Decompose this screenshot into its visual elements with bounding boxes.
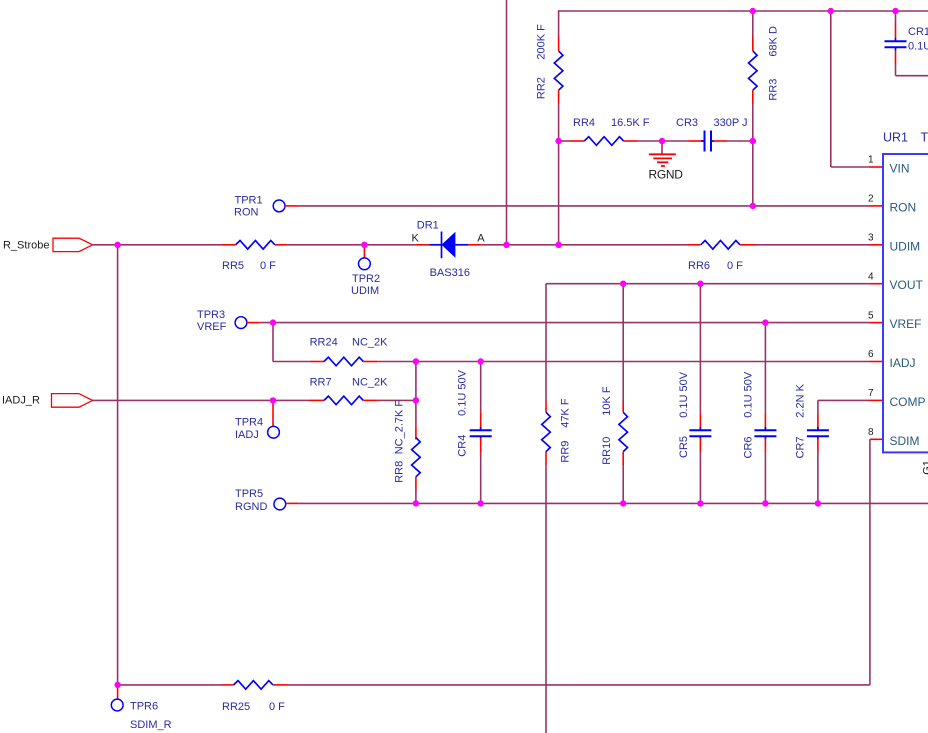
junction UDIM net at x506: [503, 242, 509, 248]
svg-text:CR7: CR7: [795, 436, 807, 458]
test point TPR1 RON: [273, 200, 285, 212]
wire TPR5 stub: [286, 502, 299, 504]
svg-text:0.1U 50V: 0.1U 50V: [743, 371, 755, 418]
svg-text:BAS316: BAS316: [430, 267, 470, 279]
capacitor CR7 pin1 stub: [817, 413, 819, 429]
capacitor CR6 pin2 stub: [764, 438, 766, 452]
wire RR7 to RR8 top: [377, 399, 416, 401]
resistor RR10 pin2 stub: [622, 452, 624, 467]
wire TPR4 junction to RR7: [273, 399, 310, 401]
svg-text:0.1U 50V: 0.1U 50V: [457, 369, 469, 416]
svg-text:RR6: RR6: [688, 260, 710, 272]
wire SDIM_R right segment: [287, 684, 870, 686]
svg-text:RR8: RR8: [394, 461, 406, 483]
resistor RR3 68K D: [749, 51, 758, 90]
wire CR5 column top: [699, 284, 701, 414]
wire junction to RR5: [118, 244, 222, 246]
resistor RR24 pin2 stub: [363, 361, 377, 363]
junction IADJ_R net at TPR4: [270, 397, 276, 403]
diode DR1 pin stub A: [468, 244, 482, 246]
svg-text:2.2N K: 2.2N K: [795, 383, 807, 417]
wire CR4 bottom to bus: [480, 453, 482, 503]
svg-text:IADJ_R: IADJ_R: [2, 394, 40, 406]
wire CR1 bottom corner to right edge: [895, 64, 897, 76]
svg-text:TPR1: TPR1: [235, 195, 263, 207]
capacitor CR7 pin2 stub: [817, 438, 819, 452]
junction IADJ net at RR8: [413, 358, 419, 364]
svg-text:68K D: 68K D: [768, 26, 780, 57]
capacitor CR4 0.1U 50V: [480, 427, 482, 430]
wire RON net: [299, 205, 870, 207]
capacitor CR7 2.2N K: [817, 427, 819, 430]
wire RR4 line left segment: [559, 140, 570, 142]
wire VOUT corner down to RR9: [545, 284, 547, 401]
pin 6 stub: [870, 361, 884, 363]
junction node R_Strobe: [114, 242, 120, 248]
junction node RGND tap: [659, 138, 665, 144]
capacitor CR5 pin2 stub: [699, 438, 701, 452]
wire IADJ left segment: [273, 361, 310, 363]
resistor RR5 0 F: [236, 241, 275, 250]
svg-text:6: 6: [868, 349, 874, 360]
svg-text:200K F: 200K F: [536, 24, 548, 60]
capacitor CR5 0.1U 50V: [699, 427, 701, 430]
resistor RR7 NC_2K: [324, 396, 363, 405]
wire CR4 column top: [480, 362, 482, 413]
wire diode to x506 junction: [482, 244, 507, 246]
svg-text:RR7: RR7: [310, 376, 332, 388]
svg-text:CR3: CR3: [676, 117, 698, 129]
svg-text:DR1: DR1: [417, 219, 439, 231]
pin 8 stub: [870, 438, 883, 440]
junction RGND bus at CR6: [762, 500, 768, 506]
wire RR9 bottom to bottom edge: [545, 466, 547, 733]
svg-text:47K F: 47K F: [559, 398, 571, 428]
resistor RR9 pin1 stub: [545, 401, 547, 413]
svg-text:3: 3: [868, 233, 874, 244]
resistor RR4 16.5K F: [584, 137, 623, 146]
svg-text:UDIM: UDIM: [351, 285, 379, 297]
diode DR1 pin stub K: [415, 244, 429, 246]
wire RR3 bottom to CR3 line: [752, 104, 754, 142]
svg-text:IADJ: IADJ: [235, 429, 259, 441]
junction UDIM net at TPR2: [361, 242, 367, 248]
svg-text:RR2: RR2: [536, 77, 548, 99]
svg-text:RON: RON: [234, 207, 259, 219]
resistor RR6 0 F: [701, 241, 740, 250]
diode DR1 BAS316: [430, 244, 442, 246]
svg-text:SDIM: SDIM: [890, 434, 920, 448]
wire R_Strobe to junction: [92, 244, 117, 246]
svg-text:0 F: 0 F: [269, 701, 285, 713]
svg-text:TPR4: TPR4: [235, 416, 263, 428]
svg-text:RR24: RR24: [310, 336, 338, 348]
resistor RR10 pin1 stub: [622, 401, 624, 413]
test point TPR5 RGND: [274, 498, 286, 510]
wire RR10 bottom to bus: [622, 466, 624, 503]
resistor RR2 pin1 stub: [558, 37, 560, 51]
capacitor CR1 pin1 stub: [895, 23, 897, 38]
wire IADJ_R to TPR4 junction: [92, 399, 273, 401]
svg-text:RGND: RGND: [235, 501, 267, 513]
test point TPR4 IADJ: [272, 400, 274, 426]
resistor RR8 pin2 stub: [415, 477, 417, 490]
wire VREF net: [260, 322, 870, 324]
wire RR8 column top: [415, 362, 417, 426]
junction RGND bus at RR10: [620, 500, 626, 506]
resistor RR24 pin1 stub: [310, 361, 324, 363]
wire RR2 bottom to RR4 line: [558, 104, 560, 142]
svg-text:TPR6: TPR6: [130, 700, 158, 712]
junction RON net at RR3: [750, 203, 756, 209]
svg-text:RR9: RR9: [559, 441, 571, 463]
test point TPR3 VREF: [235, 317, 247, 329]
wire RR6 to pin3: [756, 244, 870, 246]
svg-text:8: 8: [868, 427, 874, 438]
svg-text:0 F: 0 F: [727, 260, 743, 272]
svg-text:VREF: VREF: [890, 317, 922, 331]
svg-text:CR1: CR1: [908, 26, 928, 38]
wire x558 RR4 junction down to UDIM line: [558, 141, 560, 245]
pin 4 stub: [870, 283, 884, 285]
junction RGND bus at CR7: [815, 500, 821, 506]
svg-text:0 F: 0 F: [260, 260, 276, 272]
wire CR7 column top: [817, 400, 819, 413]
wire IADJ net: [377, 361, 869, 363]
svg-text:4: 4: [868, 271, 874, 282]
wire vertical x506 top edge to UDIM line: [506, 0, 508, 245]
wire CR5 bottom to bus: [699, 452, 701, 503]
resistor RR25 pin1 stub: [222, 684, 234, 686]
connector R_Strobe: [53, 238, 93, 251]
svg-text:VIN: VIN: [890, 162, 910, 176]
resistor RR10 10K F: [619, 412, 628, 451]
resistor RR8 pin1 stub: [415, 426, 417, 440]
svg-text:TP: TP: [921, 131, 928, 145]
wire CR6 bottom to bus: [764, 452, 766, 503]
svg-text:K: K: [412, 232, 420, 244]
op-amp U1 body UR1: [883, 154, 928, 452]
resistor RR2 200K F: [554, 51, 563, 90]
wire VIN feed horizontal: [831, 166, 870, 168]
svg-text:5: 5: [868, 310, 874, 321]
test point TPR6 SDIM_R: [117, 685, 119, 699]
wire RR8 bottom to bus: [415, 490, 417, 504]
wire x752 CR3 junction down to RON line: [752, 141, 754, 206]
wire x273 VREF to IADJ corner: [272, 323, 274, 362]
pin 2 stub: [870, 205, 884, 207]
svg-text:RR3: RR3: [768, 79, 780, 101]
svg-text:RR4: RR4: [573, 117, 595, 129]
svg-text:RR5: RR5: [222, 260, 244, 272]
resistor RR25 pin2 stub: [273, 684, 287, 686]
wire SDIM_R left segment: [118, 684, 222, 686]
resistor RR6 pin1 stub: [687, 244, 701, 246]
svg-text:NC_2K: NC_2K: [352, 376, 388, 388]
capacitor CR4 pin2 stub: [480, 438, 482, 453]
resistor RR5 pin1 stub: [221, 244, 235, 246]
svg-text:16.5K F: 16.5K F: [611, 117, 650, 129]
resistor RR4 pin2 stub: [624, 140, 638, 142]
junction VREF net at CR6: [762, 319, 768, 325]
resistor RR3 pin2 stub: [752, 90, 754, 103]
svg-text:CR4: CR4: [457, 435, 469, 457]
resistor RR24 NC_2K: [324, 357, 363, 366]
svg-text:NC_2.7K F: NC_2.7K F: [394, 400, 406, 455]
wire top net from RR2 to right edge: [559, 10, 928, 12]
junction node RR2-RR4: [555, 138, 561, 144]
junction node CR3-RR3: [750, 138, 756, 144]
svg-text:TPR3: TPR3: [197, 309, 225, 321]
capacitor CR1 0.1U: [895, 38, 897, 41]
svg-text:SDIM_R: SDIM_R: [130, 719, 172, 731]
pin 1 stub: [870, 166, 884, 168]
svg-text:G1: G1: [922, 460, 928, 475]
svg-text:UDIM: UDIM: [890, 239, 921, 253]
wire RGND bus: [299, 502, 928, 504]
capacitor CR1 pin2 stub: [895, 51, 897, 64]
junction RGND bus at CR5: [697, 500, 703, 506]
wire TPR2 junction to diode: [364, 244, 415, 246]
ground RGND: [661, 141, 663, 154]
svg-text:RR10: RR10: [601, 437, 613, 465]
junction RGND bus at RR8: [413, 500, 419, 506]
resistor RR4 pin1 stub: [570, 140, 584, 142]
svg-text:VREF: VREF: [197, 321, 227, 333]
svg-text:A: A: [477, 232, 485, 244]
test point TPR2 UDIM: [363, 245, 365, 259]
junction top net at VIN feed: [828, 8, 834, 14]
wire TPR1 stub: [285, 205, 299, 207]
junction UDIM net at x558: [555, 242, 561, 248]
capacitor CR3 pin2 stub: [713, 140, 728, 142]
svg-text:10K F: 10K F: [601, 386, 613, 416]
capacitor CR3 pin1 stub: [688, 140, 703, 142]
svg-text:0.1U: 0.1U: [908, 40, 928, 52]
wire VOUT net: [546, 283, 870, 285]
junction VOUT net at CR5: [697, 281, 703, 287]
svg-text:CR6: CR6: [743, 436, 755, 458]
svg-text:UR1: UR1: [883, 131, 908, 145]
wire VIN feed vertical x830: [830, 11, 832, 167]
svg-text:2: 2: [868, 194, 874, 205]
svg-text:330P J: 330P J: [714, 117, 748, 129]
svg-text:COMP: COMP: [890, 395, 926, 409]
junction RGND bus at CR4: [478, 500, 484, 506]
wire CR6 column top: [764, 323, 766, 414]
wire CR3 to RR3 vertical: [728, 140, 753, 142]
wire UDIM mid segment: [507, 244, 687, 246]
wire TPR3 stub: [246, 322, 259, 324]
pin 7 stub: [870, 399, 884, 401]
junction VREF net at TPR3: [270, 319, 276, 325]
resistor RR6 pin2 stub: [740, 244, 756, 246]
resistor RR7 pin2 stub: [363, 399, 377, 401]
junction IADJ net at CR4: [478, 358, 484, 364]
junction top net at RR3: [750, 8, 756, 14]
junction VOUT net at RR10: [620, 281, 626, 287]
svg-text:RON: RON: [890, 200, 917, 214]
svg-text:7: 7: [868, 388, 874, 399]
resistor RR9 47K F: [542, 412, 551, 451]
wire RR4 to RGND junction: [638, 140, 689, 142]
resistor RR7 pin1 stub: [310, 399, 324, 401]
capacitor CR6 0.1U 50V: [764, 427, 766, 430]
wire CR7 bottom to bus: [817, 452, 819, 503]
capacitor CR5 pin1 stub: [699, 413, 701, 429]
resistor RR9 pin2 stub: [545, 452, 547, 467]
svg-text:RR25: RR25: [222, 701, 250, 713]
resistor RR8 NC_2.7K F: [412, 438, 421, 477]
connector IADJ_R: [52, 394, 93, 408]
svg-text:VOUT: VOUT: [890, 278, 924, 292]
wire RR2 top lead: [558, 10, 560, 36]
pin 3 stub: [870, 244, 884, 246]
resistor RR2 pin2 stub: [558, 90, 560, 103]
svg-text:CR5: CR5: [678, 436, 690, 458]
svg-text:RGND: RGND: [649, 168, 684, 182]
svg-text:TPR5: TPR5: [235, 488, 263, 500]
wire COMP net: [818, 399, 870, 401]
capacitor CR6 pin1 stub: [764, 413, 766, 429]
svg-text:1: 1: [868, 155, 874, 166]
resistor RR25 0 F: [234, 681, 273, 690]
resistor RR3 pin1 stub: [752, 37, 754, 51]
svg-text:IADJ: IADJ: [890, 356, 916, 370]
wire RR10 column top: [622, 284, 624, 401]
junction node RR7-RR8: [413, 397, 419, 403]
pin 5 stub: [870, 322, 884, 324]
svg-text:0.1U 50V: 0.1U 50V: [678, 371, 690, 418]
junction SDIM_R net at TPR6: [114, 682, 120, 688]
wire RR5 to TPR2 junction: [288, 244, 365, 246]
resistor RR5 pin2 stub: [275, 244, 288, 246]
svg-text:NC_2K: NC_2K: [352, 336, 388, 348]
svg-text:TPR2: TPR2: [352, 273, 380, 285]
wire SDIM vertical x869: [869, 439, 871, 685]
junction top net at CR1: [892, 8, 898, 14]
capacitor CR4 pin1 stub: [480, 412, 482, 429]
wire RR3 top lead: [752, 11, 754, 37]
wire CR1 top lead: [895, 11, 897, 23]
wire x117 vertical R_Strobe to SDIM: [117, 245, 119, 685]
svg-text:R_Strobe: R_Strobe: [3, 239, 49, 251]
capacitor CR3 330P J: [701, 140, 704, 142]
